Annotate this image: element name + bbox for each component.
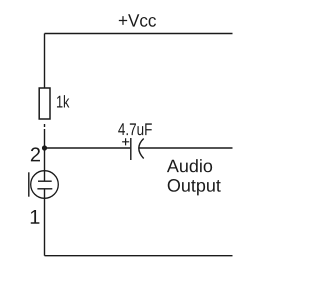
svg-text:1: 1 — [29, 207, 40, 229]
wire capacitor to audio output — [139, 147, 233, 149]
microphone lower plate — [37, 188, 52, 190]
svg-text:Output: Output — [167, 176, 221, 196]
capacitor plus polarity mark — [122, 138, 129, 145]
capacitor C1 straight plate — [130, 138, 132, 160]
wire top horizontal (+Vcc rail) — [45, 33, 233, 35]
capacitor C1 curved plate — [139, 139, 144, 159]
wire node 2 down to microphone — [44, 148, 46, 181]
svg-text:2: 2 — [30, 144, 41, 166]
microphone MK1 (electret mic body circle) — [31, 171, 59, 199]
wire microphone lower plate down — [44, 189, 46, 256]
svg-text:Audio: Audio — [167, 156, 213, 176]
wire from resistor to node 2 — [44, 129, 46, 148]
wire node 2 to capacitor — [45, 147, 131, 149]
resistor 1k (box body) — [39, 88, 50, 119]
svg-text:+Vcc: +Vcc — [118, 11, 157, 31]
pin tick below resistor — [44, 124, 46, 127]
wire left vertical from +Vcc rail to resistor — [44, 34, 46, 89]
svg-text:4.7uF: 4.7uF — [118, 120, 153, 139]
wire bottom horizontal (ground return) — [45, 255, 233, 257]
svg-text:1k: 1k — [56, 93, 70, 112]
node junction dot — [42, 145, 47, 150]
microphone upper plate — [38, 180, 52, 182]
microphone electret bar (left) — [28, 172, 30, 196]
